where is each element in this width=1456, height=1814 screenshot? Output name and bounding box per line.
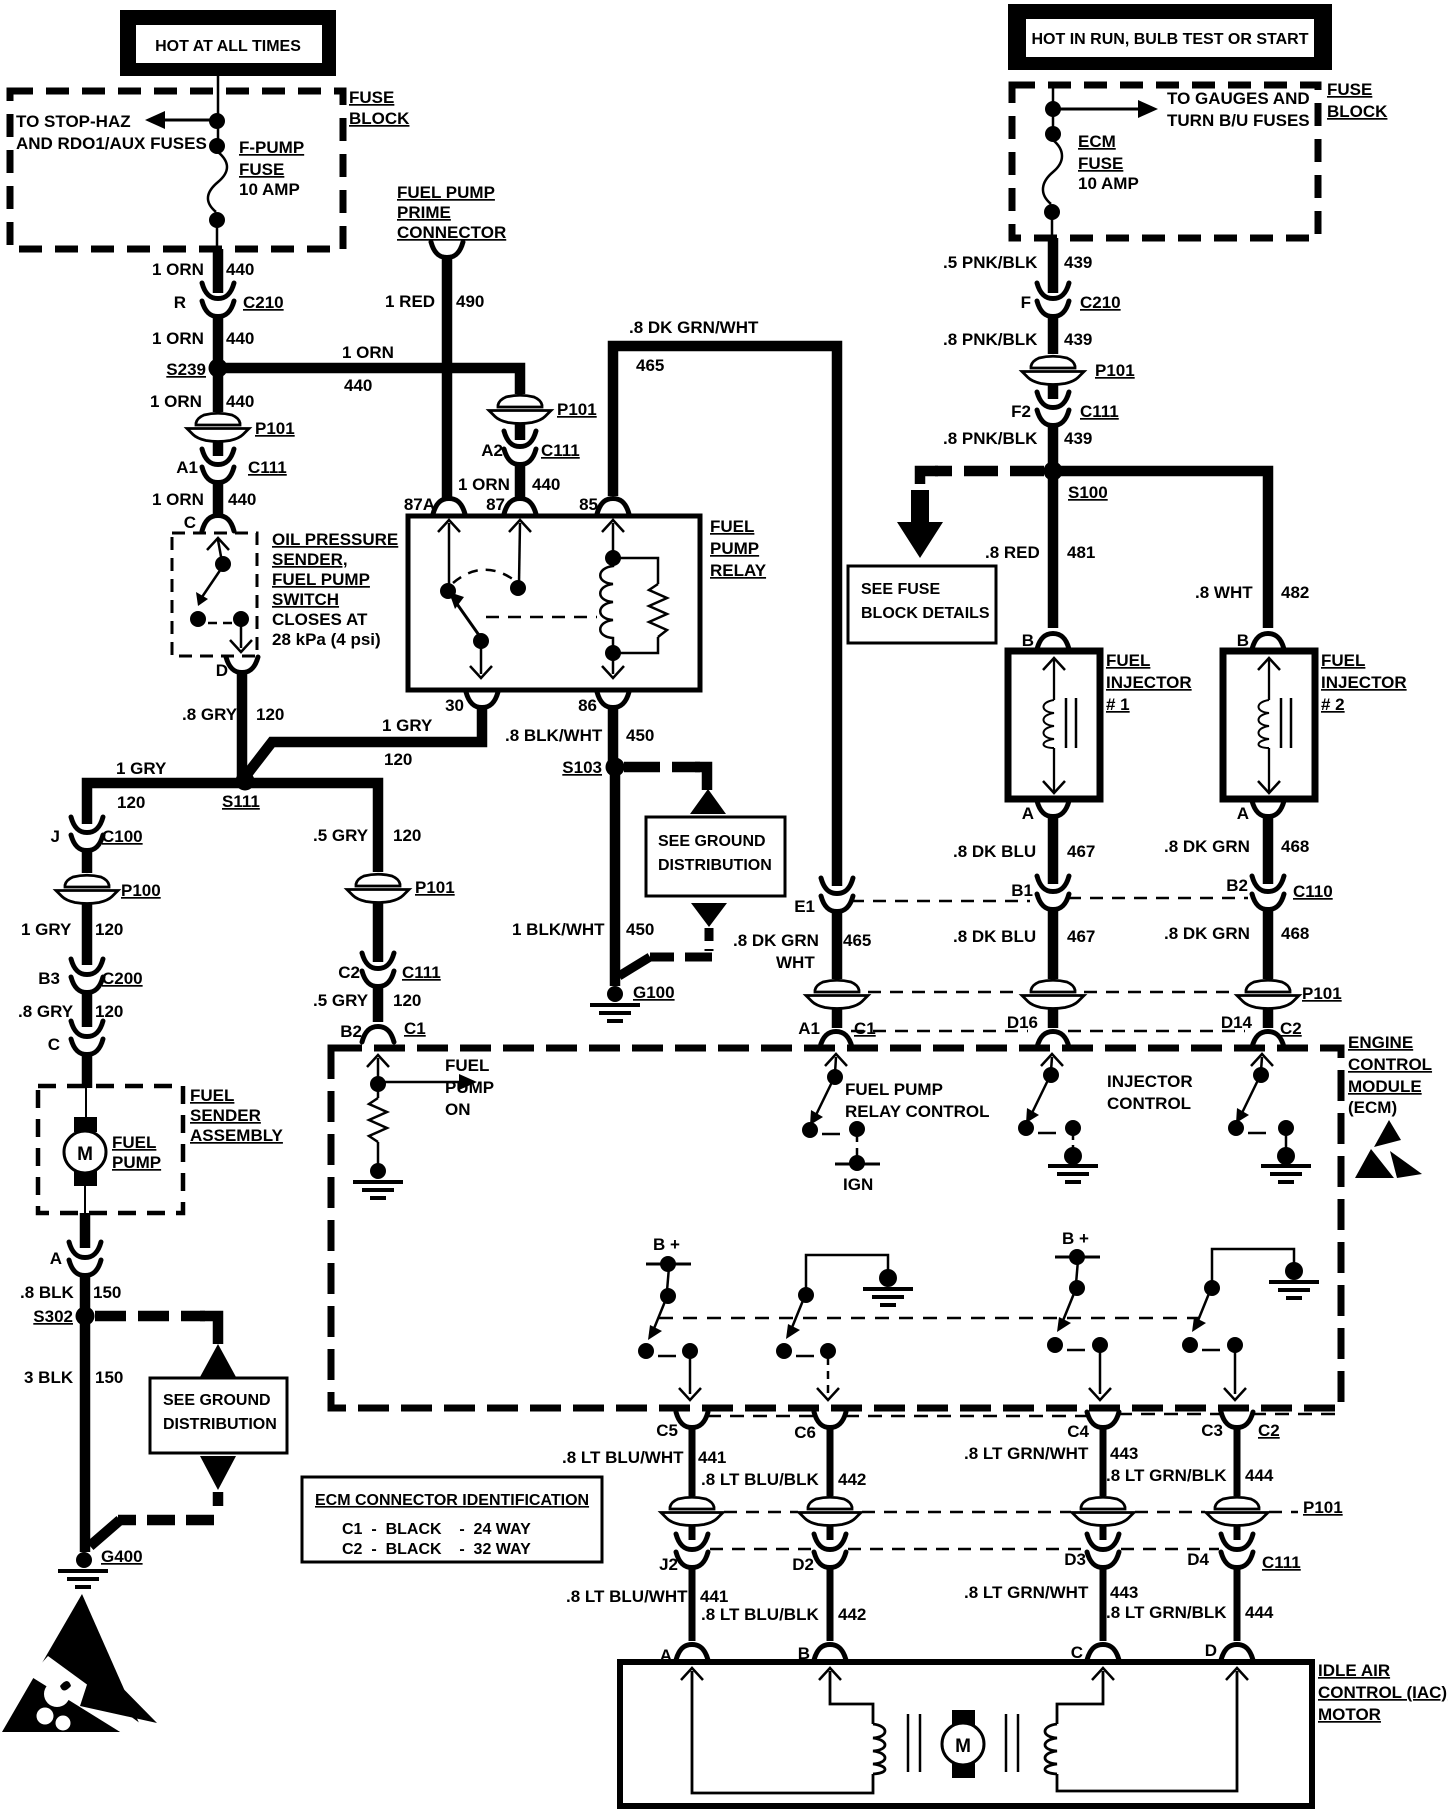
- page arrow up (ground distribution): [690, 789, 726, 814]
- svg-text:.5 GRY: .5 GRY: [313, 991, 369, 1010]
- svg-text:1 ORN: 1 ORN: [150, 392, 202, 411]
- svg-text:87: 87: [486, 495, 505, 514]
- svg-text:C210: C210: [243, 293, 284, 312]
- svg-text:A1: A1: [176, 458, 198, 477]
- grommet P101 (C3): [1206, 1496, 1343, 1526]
- svg-text:SEE GROUND: SEE GROUND: [658, 833, 766, 850]
- wire (C100 to P100): [82, 848, 93, 873]
- ECM internal: injector 2 driver switch: [1228, 1054, 1311, 1182]
- connector C110 pin B2: [1226, 876, 1332, 910]
- relay internal: resistor: [649, 584, 667, 637]
- relay internal: coil leg from 85: [602, 520, 624, 566]
- svg-text:.8 LT BLU/WHT: .8 LT BLU/WHT: [562, 1448, 684, 1467]
- svg-text:.8 DK GRN: .8 DK GRN: [1164, 837, 1250, 856]
- svg-text:28 kPa (4 psi): 28 kPa (4 psi): [272, 630, 381, 649]
- wire 3 BLK 150 (S302 to G400): [80, 1322, 91, 1552]
- svg-text:D: D: [216, 661, 228, 680]
- connector C111 pin F2: [1011, 392, 1119, 426]
- see ground distribution box (center): [646, 817, 785, 896]
- svg-text:440: 440: [226, 260, 254, 279]
- svg-text:1 GRY: 1 GRY: [116, 759, 167, 778]
- relay pin 87: [486, 495, 536, 514]
- svg-text:.8 RED: .8 RED: [985, 543, 1040, 562]
- fuel sender pin C: [48, 1021, 103, 1055]
- svg-text:# 2: # 2: [1321, 695, 1345, 714]
- svg-text:A: A: [1237, 804, 1249, 823]
- page arrow up (left ground distribution): [200, 1344, 236, 1377]
- IAC pin B: [798, 1644, 846, 1663]
- svg-text:C4: C4: [1067, 1422, 1089, 1441]
- svg-text:.8 LT GRN/WHT: .8 LT GRN/WHT: [964, 1444, 1089, 1463]
- wire C3 lens to D4: [1234, 1526, 1241, 1540]
- svg-text:TO GAUGES AND: TO GAUGES AND: [1167, 89, 1310, 108]
- svg-text:J2: J2: [659, 1555, 678, 1574]
- svg-text:450: 450: [626, 920, 654, 939]
- oil switch: movable contact: [215, 556, 231, 572]
- ECM pin A1 / C1: [798, 1019, 875, 1047]
- svg-text:440: 440: [226, 392, 254, 411]
- svg-text:IDLE AIR: IDLE AIR: [1318, 1661, 1390, 1680]
- grommet P101 (left column): [187, 412, 295, 442]
- svg-text:1 GRY: 1 GRY: [21, 920, 72, 939]
- ECM internal: IAC driver C (C4): [1047, 1229, 1111, 1400]
- wire .8 LT GRN/BLK 444 (D4 to D): [1234, 1566, 1241, 1641]
- wire 1 GRY 120 (P100 to C200): [82, 904, 93, 965]
- svg-text:440: 440: [228, 490, 256, 509]
- node: tap to stop-haz fuses: [209, 113, 225, 129]
- IAC motor M: [942, 1710, 984, 1778]
- svg-text:CONTROL: CONTROL: [1348, 1055, 1432, 1074]
- relay internal: 87A leg: [438, 520, 460, 599]
- svg-text:ECM: ECM: [1078, 132, 1116, 151]
- IAC internal: winding 1 circuit: [681, 1668, 885, 1793]
- svg-text:442: 442: [838, 1605, 866, 1624]
- ground G400: [58, 1547, 143, 1587]
- svg-text:C2: C2: [338, 963, 360, 982]
- svg-text:ASSEMBLY: ASSEMBLY: [190, 1126, 284, 1145]
- wire 1 ORN 440 (fuse block to C210): [213, 249, 224, 293]
- svg-text:468: 468: [1281, 924, 1309, 943]
- wire .5 GRY 120 (S111 to P101 center): [245, 783, 378, 872]
- svg-text:C100: C100: [102, 827, 143, 846]
- svg-text:C: C: [48, 1035, 60, 1054]
- injector 1 pin B: [1022, 631, 1069, 650]
- relay pin 30: [445, 692, 498, 715]
- svg-text:85: 85: [579, 495, 598, 514]
- svg-text:120: 120: [117, 793, 145, 812]
- dashed connector row below ECM: [707, 1414, 1342, 1416]
- grommet P101 (D16): [1022, 979, 1084, 1009]
- wire .5 GRY 120 (C111 to B2): [373, 984, 384, 1022]
- relay internal: common leg to 30: [470, 633, 492, 678]
- svg-text:E1: E1: [794, 897, 815, 916]
- injector 1 internals: [1043, 658, 1076, 793]
- svg-text:1 GRY: 1 GRY: [382, 716, 433, 735]
- wire inside right fuse block: [1052, 87, 1055, 140]
- svg-text:C111: C111: [541, 441, 580, 460]
- wire .8 LT BLU/WHT 441 (J2 to A): [689, 1566, 696, 1641]
- svg-text:FUEL: FUEL: [710, 517, 754, 536]
- ECM pin B2 / C1: [340, 1019, 425, 1042]
- idle air control motor box: [620, 1662, 1312, 1806]
- IGN terminal: [835, 1155, 880, 1194]
- IAC pin C: [1071, 1643, 1119, 1662]
- svg-text:F2: F2: [1011, 402, 1031, 421]
- svg-text:IGN: IGN: [843, 1175, 873, 1194]
- svg-text:465: 465: [636, 356, 664, 375]
- svg-text:.8 LT BLU/BLK: .8 LT BLU/BLK: [701, 1605, 819, 1624]
- svg-text:.8 DK BLU: .8 DK BLU: [953, 842, 1036, 861]
- ECM pin C3 / C2: [1201, 1412, 1279, 1440]
- svg-text:10 AMP: 10 AMP: [239, 180, 300, 199]
- svg-text:444: 444: [1245, 1603, 1274, 1622]
- oil pressure sender / fuel pump switch dashed box: [172, 533, 257, 656]
- svg-text:.8 LT BLU/BLK: .8 LT BLU/BLK: [701, 1470, 819, 1489]
- dashed grommet row (bottom): [724, 1511, 1298, 1514]
- wire .8 BLK/WHT 450 (relay 86 to S103): [608, 707, 619, 762]
- wire .8 LT GRN/WHT 443 (D3 to C): [1100, 1566, 1107, 1641]
- svg-text:ECM CONNECTOR IDENTIFICATION: ECM CONNECTOR IDENTIFICATION: [315, 1492, 589, 1509]
- wire .5 PNK/BLK 439: [1048, 238, 1059, 293]
- svg-text:.8 LT GRN/BLK: .8 LT GRN/BLK: [1106, 1603, 1227, 1622]
- svg-text:465: 465: [843, 931, 871, 950]
- svg-text:1 ORN: 1 ORN: [342, 343, 394, 362]
- svg-text:RELAY CONTROL: RELAY CONTROL: [845, 1102, 990, 1121]
- ECM pin C5: [656, 1412, 708, 1440]
- svg-text:SENDER,: SENDER,: [272, 550, 348, 569]
- wire 1 GRY 120 (relay 30 to S111): [245, 707, 482, 777]
- svg-text:S100: S100: [1068, 483, 1108, 502]
- svg-text:A1: A1: [798, 1019, 820, 1038]
- relay pin 85: [579, 495, 629, 514]
- relay internal: armature: [449, 592, 481, 638]
- wire arrow to stop-haz fuses: [145, 111, 217, 129]
- wire .8 GRY 120 (D to S111): [237, 672, 248, 777]
- svg-text:DISTRIBUTION: DISTRIBUTION: [658, 857, 772, 874]
- svg-text:1 RED: 1 RED: [385, 292, 435, 311]
- sender pin A: [50, 1242, 101, 1276]
- wire E1 lens to A1: [832, 1008, 843, 1028]
- fuse block label (right): [1327, 80, 1388, 121]
- connector C210 pin R: [174, 283, 284, 317]
- injector 2 internals: [1258, 658, 1291, 793]
- svg-text:B: B: [1237, 631, 1249, 650]
- oil switch: contacts: [190, 611, 206, 627]
- wire D16 lens to pin: [1048, 1008, 1059, 1028]
- wire .8 DK GRN 468 (injector 2 to C110): [1263, 817, 1274, 884]
- connector C111 pin D2: [792, 1534, 846, 1574]
- page arrow (fuse block details): [897, 490, 943, 558]
- svg-text:P100: P100: [121, 881, 161, 900]
- svg-text:A2: A2: [481, 441, 503, 460]
- wire C6 lens to D2: [827, 1526, 834, 1540]
- svg-text:B2: B2: [1226, 876, 1248, 895]
- svg-text:FUEL: FUEL: [190, 1086, 234, 1105]
- svg-text:1 ORN: 1 ORN: [458, 475, 510, 494]
- ECM internal: fuel pump on sense: [367, 1055, 389, 1092]
- svg-text:C111: C111: [1262, 1553, 1301, 1572]
- svg-text:SWITCH: SWITCH: [272, 590, 339, 609]
- IAC internal: winding 2 circuit: [1045, 1668, 1248, 1791]
- fuse F-PUMP 10A: [208, 152, 227, 212]
- svg-text:MODULE: MODULE: [1348, 1077, 1422, 1096]
- svg-text:3 BLK: 3 BLK: [24, 1368, 74, 1387]
- fuel injector 2 box: [1223, 651, 1315, 799]
- oil switch: armature: [196, 566, 223, 606]
- svg-text:S302: S302: [33, 1307, 73, 1326]
- connector C111 pin A2: [481, 431, 580, 465]
- dashed gang link: [659, 1317, 1199, 1320]
- node: fuse top: [209, 138, 225, 154]
- pin D of oil pressure switch: [216, 657, 258, 680]
- wire .8 DK GRN WHT 465 (E1 to P101): [832, 909, 843, 979]
- svg-text:FUSE: FUSE: [239, 160, 284, 179]
- svg-text:FUEL: FUEL: [1321, 651, 1365, 670]
- connector C111 pin J2: [659, 1534, 708, 1574]
- svg-text:150: 150: [95, 1368, 123, 1387]
- dashed wire S103 to ground distribution: [624, 762, 700, 773]
- svg-text:120: 120: [95, 920, 123, 939]
- svg-text:86: 86: [578, 696, 597, 715]
- svg-text:439: 439: [1064, 429, 1092, 448]
- splice S100: [1044, 462, 1108, 503]
- wire .8 PNK/BLK 439 (C210 to P101): [1048, 314, 1059, 354]
- dashed grommet row: [868, 991, 1022, 994]
- connector C111 pin C2: [338, 953, 441, 987]
- svg-text:468: 468: [1281, 837, 1309, 856]
- ECM internal ground (fuel pump on): [353, 1163, 403, 1198]
- wire .8 LT GRN/BLK 444 (C3 to P101): [1234, 1429, 1241, 1496]
- svg-text:440: 440: [226, 329, 254, 348]
- svg-text:RELAY: RELAY: [710, 561, 767, 580]
- dashed wire S302 to ground distribution: [95, 1311, 205, 1322]
- svg-text:.8 DK GRN/WHT: .8 DK GRN/WHT: [629, 318, 759, 337]
- svg-text:.8 DK GRN: .8 DK GRN: [733, 931, 819, 950]
- svg-text:10 AMP: 10 AMP: [1078, 174, 1139, 193]
- svg-text:S239: S239: [166, 360, 206, 379]
- svg-text:.8 DK GRN: .8 DK GRN: [1164, 924, 1250, 943]
- dashed connector row C111 (bottom): [710, 1548, 1219, 1551]
- fuse block label (left): [349, 88, 410, 128]
- svg-text:443: 443: [1110, 1444, 1138, 1463]
- dashed wire return to G400: [213, 1492, 224, 1514]
- svg-text:A: A: [50, 1249, 62, 1268]
- wire from banner into fuse block: [217, 76, 220, 152]
- wire S100 to injector 2 feed: [1053, 471, 1268, 628]
- svg-text:482: 482: [1281, 583, 1309, 602]
- svg-text:D14: D14: [1221, 1013, 1253, 1032]
- svg-text:467: 467: [1067, 842, 1095, 861]
- svg-text:P101: P101: [415, 878, 455, 897]
- wire .8 DK BLU 467 (C110 to P101): [1048, 907, 1059, 979]
- svg-text:AND RDO1/AUX FUSES: AND RDO1/AUX FUSES: [16, 134, 207, 153]
- dashed wire S100 to fuse block details: [935, 466, 1044, 477]
- ESD notice symbol (large): [2, 1594, 157, 1745]
- svg-text:P101: P101: [1095, 361, 1135, 380]
- ECM label: [1348, 1033, 1432, 1117]
- svg-text:HOT IN RUN, BULB TEST OR START: HOT IN RUN, BULB TEST OR START: [1031, 31, 1308, 48]
- svg-text:B +: B +: [1062, 1229, 1089, 1248]
- svg-text:CONNECTOR: CONNECTOR: [397, 223, 506, 242]
- dashed connector row C110: [851, 900, 1030, 903]
- ECM pin C6: [794, 1412, 846, 1442]
- grommet P101 (branch): [489, 394, 597, 424]
- svg-text:P101: P101: [557, 400, 597, 419]
- ECM pin D14 / C2: [1221, 1013, 1302, 1047]
- relay internal: coil bottom node: [602, 645, 624, 678]
- splice S111: [222, 772, 260, 812]
- svg-text:87A: 87A: [404, 495, 435, 514]
- svg-text:C200: C200: [102, 969, 143, 988]
- relay internal: dashed mechanical arc: [453, 570, 514, 583]
- connector C100 pin J: [51, 817, 143, 851]
- fuel pump relay box: [408, 516, 700, 690]
- svg-text:C: C: [184, 513, 196, 532]
- svg-text:PUMP: PUMP: [710, 539, 759, 558]
- node: fuse bottom: [209, 212, 225, 228]
- relay internal: resistor branch: [613, 558, 658, 653]
- svg-text:C2 - BLACK - 32 WAY: C2 - BLACK - 32 WAY: [342, 1541, 531, 1558]
- svg-text:C110: C110: [1293, 882, 1333, 901]
- svg-text:120: 120: [393, 991, 421, 1010]
- svg-text:120: 120: [256, 705, 284, 724]
- relay pin 87A: [404, 495, 465, 514]
- svg-text:F-PUMP: F-PUMP: [239, 138, 304, 157]
- IAC internal: core bars: [908, 1714, 1018, 1772]
- svg-text:120: 120: [95, 1002, 123, 1021]
- svg-text:150: 150: [93, 1283, 121, 1302]
- wire C4 lens to D3: [1100, 1526, 1107, 1540]
- grommet P101 (C5): [661, 1496, 723, 1526]
- svg-text:D16: D16: [1007, 1013, 1038, 1032]
- wire .8 DK BLU 467 (injector 1 to C110): [1048, 817, 1059, 884]
- svg-text:.8 PNK/BLK: .8 PNK/BLK: [943, 330, 1038, 349]
- svg-text:443: 443: [1110, 1583, 1138, 1602]
- svg-text:.8 LT GRN/BLK: .8 LT GRN/BLK: [1106, 1466, 1227, 1485]
- svg-text:A: A: [1022, 804, 1034, 823]
- svg-text:(ECM): (ECM): [1348, 1098, 1397, 1117]
- grommet P101 (C6): [799, 1496, 861, 1526]
- svg-text:481: 481: [1067, 543, 1095, 562]
- svg-text:SEE FUSE: SEE FUSE: [861, 581, 940, 598]
- svg-text:M: M: [955, 1736, 971, 1757]
- wire (P101 to C111 center): [373, 903, 384, 962]
- wire D14 lens to pin: [1263, 1008, 1274, 1028]
- svg-text:C3: C3: [1201, 1421, 1223, 1440]
- svg-text:B +: B +: [653, 1235, 680, 1254]
- ECM internal: fuel pump relay control switch: [802, 1054, 865, 1160]
- svg-text:.8 BLK/WHT: .8 BLK/WHT: [505, 726, 603, 745]
- svg-text:1 ORN: 1 ORN: [152, 329, 204, 348]
- svg-text:D4: D4: [1187, 1550, 1209, 1569]
- svg-text:FUEL: FUEL: [445, 1056, 489, 1075]
- wire C5 lens to J2: [689, 1526, 696, 1540]
- node: ECM fuse bottom: [1044, 204, 1060, 220]
- svg-text:C5: C5: [656, 1421, 678, 1440]
- grommet P101 (right column): [1022, 355, 1135, 385]
- svg-text:J: J: [51, 827, 60, 846]
- svg-text:M: M: [77, 1144, 93, 1165]
- svg-text:S111: S111: [222, 792, 260, 811]
- pin C of oil pressure switch: [184, 513, 234, 532]
- see fuse block details box: [848, 566, 996, 643]
- svg-text:PUMP: PUMP: [445, 1078, 494, 1097]
- splice S103: [562, 758, 624, 778]
- wire 1 BLK/WHT 450 (S103 to G100): [610, 772, 621, 986]
- svg-text:INJECTOR: INJECTOR: [1106, 673, 1192, 692]
- relay internal: coil: [600, 560, 613, 650]
- connector C110 pin E1: [794, 878, 853, 916]
- see ground distribution box (left): [150, 1378, 287, 1453]
- engine control module dashed box: [331, 1048, 1341, 1408]
- svg-text:BLOCK: BLOCK: [349, 109, 410, 128]
- fuse ECM 10A: [1043, 140, 1062, 204]
- svg-text:1 ORN: 1 ORN: [152, 260, 204, 279]
- injector 2 pin B: [1237, 631, 1284, 650]
- svg-text:SENDER: SENDER: [190, 1106, 261, 1125]
- svg-text:ENGINE: ENGINE: [1348, 1033, 1413, 1052]
- svg-text:FUEL PUMP: FUEL PUMP: [845, 1080, 943, 1099]
- svg-text:INJECTOR: INJECTOR: [1321, 673, 1407, 692]
- fuel pump prime connector terminal: [431, 242, 463, 258]
- svg-text:C2: C2: [1258, 1421, 1280, 1440]
- fuel sender assembly dashed box: [38, 1086, 183, 1213]
- fuse block (left) dashed box: [10, 91, 343, 249]
- ECM internal: IAC driver A (C5): [638, 1235, 701, 1400]
- svg-text:R: R: [174, 293, 186, 312]
- svg-text:CONTROL (IAC): CONTROL (IAC): [1318, 1683, 1447, 1702]
- grommet P101 (D14): [1237, 979, 1342, 1009]
- wire arrow to gauges fuses: [1053, 100, 1158, 118]
- svg-text:TO STOP-HAZ: TO STOP-HAZ: [16, 112, 131, 131]
- oil switch: output arrow to D: [230, 622, 252, 652]
- node: tap to gauges fuses: [1045, 101, 1061, 117]
- wire .8 LT BLU/BLK 442 (C6 to P101): [827, 1429, 834, 1496]
- svg-text:.5 PNK/BLK: .5 PNK/BLK: [943, 253, 1038, 272]
- svg-text:WHT: WHT: [776, 953, 815, 972]
- svg-text:444: 444: [1245, 1466, 1274, 1485]
- fuel pump on arrow: [382, 1074, 477, 1090]
- svg-text:440: 440: [532, 475, 560, 494]
- svg-text:SEE GROUND: SEE GROUND: [163, 1392, 271, 1409]
- wire below sender box: [80, 1213, 91, 1248]
- ECM internal: IAC driver B (C6): [776, 1255, 913, 1400]
- oil switch: pin arrow: [207, 538, 229, 562]
- svg-text:# 1: # 1: [1106, 695, 1130, 714]
- svg-text:B: B: [1022, 631, 1034, 650]
- svg-text:B3: B3: [38, 969, 60, 988]
- svg-text:490: 490: [456, 292, 484, 311]
- svg-text:.8 DK BLU: .8 DK BLU: [953, 927, 1036, 946]
- svg-text:FUEL PUMP: FUEL PUMP: [272, 570, 370, 589]
- wire 1 RED 490 (prime connector to relay 87A): [442, 258, 453, 498]
- ECM pin C4: [1067, 1412, 1119, 1441]
- svg-text:442: 442: [838, 1470, 866, 1489]
- svg-text:F: F: [1021, 293, 1031, 312]
- ECM connector identification box: [302, 1477, 602, 1562]
- fuel pump motor M1: [64, 1086, 106, 1213]
- svg-text:441: 441: [700, 1587, 728, 1606]
- svg-text:PUMP: PUMP: [112, 1153, 161, 1172]
- svg-text:OIL PRESSURE: OIL PRESSURE: [272, 530, 398, 549]
- ECM internal: IAC driver D (C3): [1182, 1249, 1319, 1400]
- page arrow down (left ground distribution): [200, 1456, 236, 1490]
- wire 1 GRY 120 (S111 to C100): [87, 783, 245, 824]
- node: ECM fuse top: [1045, 126, 1061, 142]
- wire .8 DK GRN/WHT 465 (relay 85 to E1): [613, 346, 837, 886]
- grommet P101 (E1): [806, 979, 868, 1009]
- svg-text:C1: C1: [404, 1019, 426, 1038]
